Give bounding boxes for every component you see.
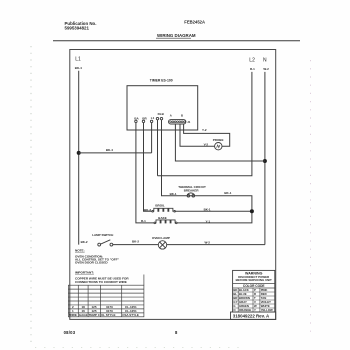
svg-text:8: 8 [175, 330, 178, 335]
wire broil to L2 node [175, 210, 252, 212]
timer U1 box [127, 86, 198, 130]
wire label BK-2 after switch [132, 240, 139, 244]
lamp switch label [92, 233, 113, 237]
warning box [233, 270, 275, 312]
svg-text:WIRING DIAGRAM: WIRING DIAGRAM [157, 33, 196, 38]
outer diagram border [70, 50, 276, 320]
bake element R-bake [154, 220, 177, 224]
footer date [64, 330, 76, 335]
footer page number [175, 330, 178, 335]
svg-text:W-2: W-2 [263, 67, 269, 71]
svg-text:R-1: R-1 [141, 219, 146, 223]
pin L1 terminal [150, 120, 152, 122]
svg-text:08/03: 08/03 [64, 330, 76, 335]
wire connector pin to probe right loop [184, 124, 230, 146]
connector J1 shell [169, 120, 186, 124]
revision box [231, 312, 276, 319]
color code text [233, 288, 273, 312]
svg-text:OVEN LAMP: OVEN LAMP [152, 236, 170, 240]
wire label BK-4 under L1 [75, 66, 82, 70]
svg-text:A: A [170, 114, 172, 118]
wire BR to broil element [144, 123, 153, 212]
broil element R-broil [152, 208, 176, 212]
header model number FEB2452A [184, 20, 205, 25]
svg-text:BK-1: BK-1 [204, 208, 211, 212]
broil element label [155, 203, 165, 207]
svg-text:CSA STYLE: CSA STYLE [122, 313, 139, 317]
note block [75, 248, 129, 283]
node L2 label [249, 57, 255, 63]
pin DLB-2 terminal [160, 117, 162, 119]
svg-text:J1: J1 [187, 120, 191, 124]
node junction probe return on N [263, 159, 267, 163]
svg-text:W-2: W-2 [205, 240, 211, 244]
color code grid [233, 288, 275, 312]
connector J1 pins [170, 121, 186, 123]
pin BR terminal [142, 120, 144, 122]
svg-text:IMPORTANT:: IMPORTANT: [75, 270, 94, 274]
wire label BK-1 broil right [204, 208, 211, 212]
svg-text:BK-3: BK-3 [144, 208, 151, 212]
svg-text:BK-4: BK-4 [106, 148, 113, 152]
pin BA terminal [135, 120, 137, 122]
node junction element return [250, 209, 254, 213]
header publication number [65, 21, 97, 31]
wire switch to lamp [113, 244, 159, 246]
svg-text:BK-2: BK-2 [132, 240, 139, 244]
svg-text:Y-2: Y-2 [202, 128, 207, 132]
svg-text:UL STYLE: UL STYLE [101, 313, 115, 317]
thermal circuit breaker symbol [187, 193, 195, 197]
wire label Y-2 [202, 128, 207, 132]
svg-text:BROIL: BROIL [155, 203, 165, 207]
wire label W-2 under N [263, 67, 269, 71]
probe label [213, 138, 224, 142]
connector label J1 [187, 120, 191, 124]
header rule [53, 40, 300, 42]
wire gauge table text [69, 305, 139, 317]
svg-text:318049222 Rev. A: 318049222 Rev. A [233, 314, 270, 319]
wire label V-2 [204, 143, 209, 147]
wire DLB-2 to thermal breaker [162, 120, 252, 223]
wire L1 vertical [78, 71, 80, 245]
probe internal mark [217, 145, 220, 148]
pin BA label [134, 116, 139, 120]
wire label W-2 lamp return [205, 240, 211, 244]
wire connector pin to N (oven light return) [175, 124, 265, 161]
svg-text:PROBE: PROBE [213, 138, 224, 142]
connector label B [181, 114, 183, 118]
thermal circuit breaker label [178, 185, 206, 192]
svg-text:BK-1: BK-1 [224, 191, 231, 195]
scan artifact left dotted line [30, 46, 32, 344]
oven lamp DS1 [158, 241, 166, 249]
svg-text:NOTE:: NOTE: [75, 248, 85, 252]
svg-text:BR: BR [142, 116, 147, 120]
svg-text:BK-4: BK-4 [75, 66, 82, 70]
node N label [263, 57, 267, 63]
svg-text:CONNECTIONS TO CONDUIT WIRE: CONNECTIONS TO CONDUIT WIRE [75, 280, 127, 284]
svg-text:B: B [181, 114, 183, 118]
svg-text:LAMP SWITCH: LAMP SWITCH [92, 233, 113, 237]
wire L2 vertical [158, 72, 252, 176]
probe sensor [215, 143, 222, 150]
pin DLB label [158, 112, 165, 116]
wire timer pin L1 drop [151, 123, 153, 153]
svg-text:TIMER ES-100: TIMER ES-100 [150, 79, 173, 83]
wire label BK-2 before switch [81, 240, 88, 244]
scan artifact right dotted line [310, 60, 312, 332]
svg-text:5995394821: 5995394821 [65, 26, 90, 31]
svg-text:BK-1: BK-1 [170, 192, 177, 196]
svg-text:Y-1: Y-1 [206, 219, 211, 223]
svg-text:BEFORE SERVICING UNIT: BEFORE SERVICING UNIT [236, 278, 272, 282]
svg-text:GAGE: GAGE [79, 313, 88, 317]
svg-text:R-1: R-1 [250, 67, 255, 71]
oven lamp label [152, 236, 170, 240]
scan artifact bottom dotted line [35, 347, 240, 349]
wire lamp to N [167, 244, 265, 246]
warning text [236, 271, 272, 288]
pin BR label [142, 116, 147, 120]
svg-text:N: N [263, 57, 267, 63]
wire N vertical [264, 72, 266, 245]
svg-text:FEB2452A: FEB2452A [184, 20, 205, 25]
wire label BK-1 right of breaker [224, 191, 231, 195]
svg-text:BREAKER: BREAKER [184, 188, 200, 192]
svg-text:WIRE: WIRE [69, 313, 77, 317]
wire connector pin to probe left [180, 124, 215, 146]
node L1 label [75, 57, 81, 63]
wire label BK-4 on L1 feed [106, 148, 113, 152]
svg-text:OVEN DOOR CLOSED: OVEN DOOR CLOSED [75, 261, 108, 265]
svg-text:TEMP C: TEMP C [89, 313, 101, 317]
svg-text:BK-2: BK-2 [81, 240, 88, 244]
node junction L1 feed [77, 151, 81, 155]
lamp switch S1 [98, 240, 113, 246]
connector label A [170, 114, 172, 118]
wire DLB-1 to L2 line [157, 120, 159, 176]
timer label TIMER ES-100 [150, 79, 173, 83]
svg-text:L2: L2 [249, 57, 255, 63]
wire label R-1 bake left [141, 219, 146, 223]
svg-text:BA: BA [134, 116, 139, 120]
wire label Y-1 bake right [206, 219, 211, 223]
warning rules [233, 284, 275, 288]
pin DLB-1 terminal [156, 117, 158, 119]
svg-text:L1: L1 [75, 57, 81, 63]
wire label BK-1 left of breaker [170, 192, 177, 196]
svg-text:V-2: V-2 [204, 143, 209, 147]
wire BA to bake element [136, 123, 154, 223]
header title WIRING DIAGRAM [156, 33, 196, 38]
bake element label [158, 216, 167, 220]
wire gauge table grid [68, 275, 143, 317]
revision text [233, 314, 270, 319]
wire L1 to timer pin L1 [79, 152, 152, 154]
svg-text:L1: L1 [151, 116, 155, 120]
svg-text:DLB: DLB [158, 112, 165, 116]
wire label R-1 under L2 [250, 67, 255, 71]
pin L1 label [151, 116, 155, 120]
wire label BK-3 broil left [144, 208, 151, 212]
